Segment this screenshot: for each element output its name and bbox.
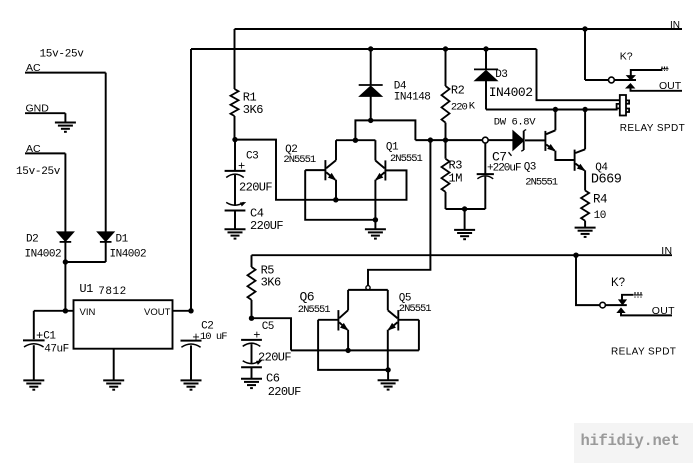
svg-text:1M: 1M <box>449 172 463 186</box>
svg-text:DW 6.8V: DW 6.8V <box>494 117 536 129</box>
svg-text:2N5551: 2N5551 <box>390 153 423 165</box>
svg-text:15v-25v: 15v-25v <box>16 166 61 178</box>
svg-text:Q1: Q1 <box>386 142 399 154</box>
svg-text:IN4002: IN4002 <box>110 249 147 261</box>
svg-text:10: 10 <box>594 210 606 222</box>
svg-text:C3: C3 <box>246 151 258 163</box>
svg-text:C5: C5 <box>262 321 274 333</box>
svg-text:2N5551: 2N5551 <box>399 303 432 315</box>
svg-text:K?: K? <box>620 51 633 63</box>
svg-text:VOUT: VOUT <box>144 307 171 318</box>
svg-text:RELAY SPDT: RELAY SPDT <box>620 123 685 134</box>
svg-text:220UF: 220UF <box>258 351 291 365</box>
svg-text:D2: D2 <box>26 234 38 246</box>
svg-text:47uF: 47uF <box>44 344 68 356</box>
svg-text:3K6: 3K6 <box>261 276 281 290</box>
svg-text:+220uF: +220uF <box>487 163 521 175</box>
svg-text:2N5551: 2N5551 <box>298 304 331 316</box>
svg-text:220UF: 220UF <box>250 219 283 233</box>
svg-text:220UF: 220UF <box>239 181 272 195</box>
svg-text:RELAY SPDT: RELAY SPDT <box>611 347 676 358</box>
svg-text:IN4148: IN4148 <box>394 92 431 104</box>
svg-text:R2: R2 <box>451 84 465 98</box>
svg-text:D669: D669 <box>591 173 622 188</box>
svg-text:10 uF: 10 uF <box>200 331 227 343</box>
svg-text:OUT: OUT <box>659 80 682 92</box>
svg-text:IN: IN <box>670 20 680 31</box>
svg-text:U1: U1 <box>79 282 93 296</box>
svg-text:Q6: Q6 <box>300 290 315 305</box>
svg-text:15v-25v: 15v-25v <box>40 49 85 61</box>
svg-text:R4: R4 <box>593 193 607 207</box>
svg-text:K: K <box>469 101 476 113</box>
svg-text:VIN: VIN <box>80 307 96 318</box>
svg-text:Q3: Q3 <box>524 162 536 174</box>
svg-text:C6: C6 <box>266 372 280 386</box>
svg-text:hifidiy.net: hifidiy.net <box>581 432 680 450</box>
svg-text:D1: D1 <box>116 234 129 246</box>
svg-text:IN: IN <box>661 245 672 257</box>
svg-text:R3: R3 <box>449 159 463 173</box>
svg-text:C1: C1 <box>43 330 56 342</box>
svg-text:+: + <box>192 331 200 345</box>
svg-text:3K6: 3K6 <box>243 103 263 117</box>
svg-text:IN4002: IN4002 <box>25 249 62 261</box>
svg-text:K?: K? <box>611 277 625 289</box>
svg-text:OUT: OUT <box>652 305 675 317</box>
svg-text:220UF: 220UF <box>268 385 301 399</box>
svg-text:7812: 7812 <box>98 286 126 298</box>
svg-text:D3: D3 <box>495 69 507 81</box>
svg-text:IN4002: IN4002 <box>489 85 533 100</box>
svg-text:2N5551: 2N5551 <box>283 154 316 166</box>
svg-text:220: 220 <box>451 102 468 114</box>
svg-text:2N5551: 2N5551 <box>525 177 558 189</box>
